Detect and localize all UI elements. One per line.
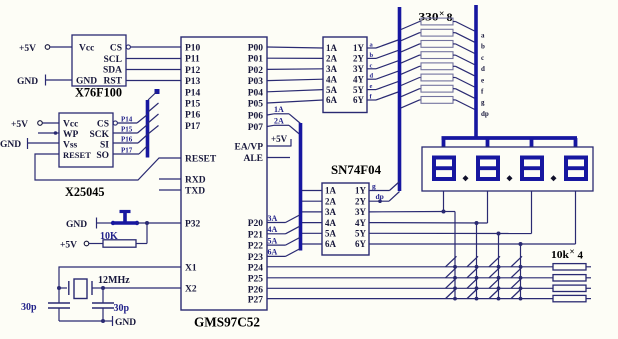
svg-text:d: d bbox=[370, 73, 374, 80]
resistor network RN1-3 (330) bbox=[401, 41, 475, 54]
wire X76F100 CS to P10 bbox=[131, 46, 182, 48]
ground GND at button bbox=[66, 218, 113, 231]
switch key R3C2 bbox=[467, 278, 478, 290]
svg-text:P16: P16 bbox=[185, 111, 201, 121]
svg-text:a: a bbox=[481, 32, 485, 40]
svg-text:2A: 2A bbox=[326, 54, 338, 64]
wire X25045 SI (net P16) bbox=[113, 135, 148, 144]
bus P14-P17 (thick) bbox=[146, 100, 150, 158]
svg-text:1A: 1A bbox=[274, 105, 284, 114]
wire P01 to U2 2A bbox=[267, 57, 323, 59]
chip X25045 bbox=[59, 113, 117, 199]
wire bus to P15 bbox=[148, 103, 159, 112]
wire P23 (net 6A) to bus bbox=[267, 248, 301, 257]
wire U2 4Y (segment d) to bus bbox=[367, 71, 400, 80]
wire bus to U3 2A bbox=[302, 200, 322, 202]
svg-text:8: 8 bbox=[447, 10, 453, 24]
wire P04 to U2 5A bbox=[267, 90, 323, 92]
svg-text:+5V: +5V bbox=[60, 241, 77, 251]
svg-text:5A: 5A bbox=[326, 85, 338, 95]
wire P21 (net 4A) to bus bbox=[267, 225, 301, 234]
power +5V to 10K bbox=[60, 241, 103, 251]
resistor network RN2-2 (10k) bbox=[553, 275, 591, 281]
MCU GMS97C52 bbox=[181, 37, 267, 331]
svg-text:RESET: RESET bbox=[63, 150, 91, 160]
svg-text:+5V: +5V bbox=[271, 134, 288, 144]
svg-text:Vcc: Vcc bbox=[79, 44, 94, 54]
svg-text:SCK: SCK bbox=[89, 130, 109, 140]
wire U3 3Y to digit1/column1 bbox=[369, 210, 455, 214]
resistor network RN2-4 (10k) bbox=[553, 295, 591, 301]
svg-text:d: d bbox=[481, 65, 485, 73]
crystal Y1 12MHz bbox=[57, 275, 130, 299]
svg-text:5Y: 5Y bbox=[355, 229, 367, 239]
wire U3 2Y (segment dp) to bus bbox=[369, 192, 400, 204]
svg-text:P17: P17 bbox=[185, 122, 201, 132]
svg-text:CS: CS bbox=[110, 44, 122, 54]
chip X76F100 bbox=[72, 35, 130, 100]
svg-text:5A: 5A bbox=[325, 229, 337, 239]
svg-text:X25045: X25045 bbox=[65, 184, 105, 199]
wire X76F100 SDA to P12 bbox=[126, 69, 181, 71]
switch key R4C3 bbox=[489, 288, 500, 300]
svg-text:GND: GND bbox=[17, 77, 38, 87]
svg-text:P04: P04 bbox=[248, 88, 264, 98]
switch key R4C2 bbox=[467, 288, 478, 300]
wire MCU TXD stub bbox=[159, 189, 181, 191]
switch key R2C2 bbox=[467, 267, 478, 279]
svg-text:P11: P11 bbox=[185, 55, 200, 65]
wire keypad column 4 bbox=[520, 244, 522, 299]
svg-text:GND: GND bbox=[0, 140, 21, 150]
resistor network RN1-1 (330) bbox=[401, 18, 475, 31]
svg-text:dp: dp bbox=[376, 192, 384, 201]
svg-text:P14: P14 bbox=[185, 88, 201, 98]
wire keypad row 3 (P26) bbox=[267, 287, 553, 289]
wire keypad row 1 (P24) bbox=[267, 266, 553, 268]
svg-text:P06: P06 bbox=[248, 112, 264, 122]
svg-text:2Y: 2Y bbox=[353, 54, 365, 64]
svg-text:SO: SO bbox=[96, 151, 109, 161]
svg-text:3Y: 3Y bbox=[353, 64, 365, 74]
power +5V to X25045 Vcc bbox=[11, 120, 59, 130]
wire keypad column 3 bbox=[498, 234, 500, 299]
svg-text:SDA: SDA bbox=[103, 66, 122, 76]
bus digit-drive (thick) bbox=[299, 123, 303, 251]
svg-text:6A: 6A bbox=[325, 239, 337, 249]
svg-text:ALE: ALE bbox=[243, 154, 263, 164]
wire U3 4Y to digit2/column2 bbox=[369, 221, 488, 225]
switch key R4C1 bbox=[446, 288, 457, 300]
capacitor C2 30p bbox=[92, 288, 130, 321]
svg-text:3A: 3A bbox=[326, 64, 338, 74]
wire U2 1Y (segment a) to bus bbox=[367, 40, 400, 49]
bus segment-right (thick) bbox=[474, 5, 478, 140]
wire P05 to U2 6A bbox=[267, 100, 323, 103]
svg-text:6A: 6A bbox=[326, 95, 338, 105]
svg-text:3A: 3A bbox=[268, 214, 278, 223]
wire X76F100 SCL to P11 bbox=[126, 58, 181, 60]
wire display segment bracket (thick) bbox=[442, 138, 578, 147]
switch key R4C4 bbox=[511, 288, 522, 300]
svg-text:3A: 3A bbox=[325, 207, 337, 217]
svg-text:30p: 30p bbox=[114, 303, 130, 314]
ground GND to X76F100 bbox=[17, 75, 72, 88]
wire ALE stub bbox=[267, 157, 290, 159]
switch key R2C3 bbox=[489, 267, 500, 279]
svg-text:1A: 1A bbox=[326, 43, 338, 53]
svg-text:P20: P20 bbox=[248, 219, 264, 229]
switch key R3C1 bbox=[446, 278, 457, 290]
svg-text:P12: P12 bbox=[185, 66, 201, 76]
svg-text:1Y: 1Y bbox=[353, 43, 365, 53]
svg-text:CS: CS bbox=[97, 120, 109, 130]
svg-text:P25: P25 bbox=[248, 275, 264, 285]
svg-text:EA/VP: EA/VP bbox=[235, 143, 264, 153]
wire bus to U3 3A bbox=[302, 211, 322, 213]
wire keypad row 4 (P27) bbox=[267, 298, 553, 300]
wire U3 6Y to digit4/column4 bbox=[369, 242, 576, 246]
wire U2 6Y (segment f) to bus bbox=[367, 92, 400, 101]
wire X25045 WP bbox=[38, 131, 59, 135]
svg-text:P23: P23 bbox=[248, 253, 264, 263]
svg-text:b: b bbox=[481, 43, 485, 51]
svg-text:X76F100: X76F100 bbox=[75, 86, 122, 100]
svg-text:f: f bbox=[481, 88, 484, 96]
svg-text:P24: P24 bbox=[248, 264, 264, 274]
svg-text:P15: P15 bbox=[121, 126, 133, 134]
svg-text:P14: P14 bbox=[121, 116, 133, 124]
resistor network RN2-3 (10k) bbox=[553, 285, 591, 291]
display DS1 4-digit 7-segment bbox=[422, 147, 593, 191]
svg-text:3Y: 3Y bbox=[355, 207, 367, 217]
svg-text:RESET: RESET bbox=[185, 155, 217, 165]
svg-text:1A: 1A bbox=[325, 186, 337, 196]
svg-text:2Y: 2Y bbox=[355, 196, 367, 206]
switch key R3C3 bbox=[489, 278, 500, 290]
wire bus to U3 5A bbox=[302, 232, 322, 234]
svg-text:+5V: +5V bbox=[11, 120, 28, 130]
svg-text:P07: P07 bbox=[248, 123, 264, 133]
svg-text:e: e bbox=[370, 83, 373, 90]
wire P07 (net 2A) to bus bbox=[267, 117, 301, 136]
wire bus to U3 4A bbox=[302, 222, 322, 224]
svg-text:P01: P01 bbox=[248, 55, 264, 65]
svg-text:P21: P21 bbox=[248, 230, 264, 240]
hex inverter U3 SN74F04 bbox=[322, 162, 381, 255]
svg-text:dp: dp bbox=[481, 110, 489, 118]
svg-text:Vcc: Vcc bbox=[63, 120, 78, 130]
svg-text:4: 4 bbox=[578, 250, 584, 262]
svg-text:P05: P05 bbox=[248, 100, 264, 110]
svg-text:c: c bbox=[370, 62, 373, 69]
svg-text:2A: 2A bbox=[274, 117, 284, 126]
power +5V to EA/VP bbox=[267, 134, 291, 147]
resistor 10K bbox=[100, 231, 147, 247]
wire crystal ground rail bbox=[59, 319, 112, 323]
wire U3 1Y (segment g) to bus bbox=[369, 182, 400, 191]
svg-text:TXD: TXD bbox=[185, 187, 205, 197]
resistor network RN1-2 (330) bbox=[401, 29, 475, 42]
svg-text:2A: 2A bbox=[325, 196, 337, 206]
switch key R2C4 bbox=[511, 267, 522, 279]
wire bus to U3 1A bbox=[302, 190, 322, 192]
wire keypad column 1 bbox=[454, 212, 456, 299]
svg-text:6A: 6A bbox=[268, 248, 278, 257]
resistor network RN1-6 (330) bbox=[401, 74, 475, 87]
svg-text:5Y: 5Y bbox=[353, 85, 365, 95]
svg-text:×: × bbox=[570, 247, 575, 257]
wire X2 bbox=[103, 287, 181, 289]
switch key R1C4 bbox=[511, 256, 522, 268]
svg-text:Vss: Vss bbox=[63, 141, 78, 151]
wire P03 to U2 4A bbox=[267, 79, 323, 80]
switch key R1C3 bbox=[489, 256, 500, 268]
wire keypad column 2 bbox=[476, 223, 478, 299]
svg-text:P10: P10 bbox=[185, 44, 201, 54]
wire X25045 SCK (net P15) bbox=[113, 125, 148, 134]
svg-text:P03: P03 bbox=[248, 77, 264, 87]
switch key R1C2 bbox=[467, 256, 478, 268]
power +5V to X76F100 Vcc bbox=[19, 44, 72, 54]
wire P00 to U2 1A bbox=[267, 47, 323, 48]
svg-text:X2: X2 bbox=[185, 285, 197, 295]
wire X25045 RESET to MCU RESET bbox=[35, 154, 181, 180]
resistor network RN1-4 (330) bbox=[401, 52, 475, 65]
wire display digit2 cathode bbox=[487, 191, 489, 223]
svg-text:P16: P16 bbox=[121, 136, 133, 144]
ground GND to X25045 Vss bbox=[0, 138, 59, 150]
resistor network RN1-7 (330) bbox=[401, 85, 475, 98]
wire X25045 CS (net P14) bbox=[118, 115, 148, 124]
ground GND at crystal bbox=[113, 316, 137, 328]
svg-text:SN74F04: SN74F04 bbox=[331, 162, 381, 177]
svg-text:g: g bbox=[481, 99, 485, 107]
svg-text:5A: 5A bbox=[268, 236, 278, 245]
wire P20 (net 3A) to bus bbox=[267, 214, 301, 223]
svg-text:b: b bbox=[370, 52, 374, 59]
wire junction down to resistor bbox=[146, 223, 148, 244]
capacitor C1 30p bbox=[21, 302, 70, 321]
svg-text:g: g bbox=[372, 182, 376, 191]
wire display digit1 cathode bbox=[443, 191, 445, 212]
hex inverter U2 SN74F04 (a-f) bbox=[323, 37, 367, 113]
svg-text:P26: P26 bbox=[248, 285, 264, 295]
wire display digit4 cathode bbox=[575, 191, 577, 244]
svg-text:WP: WP bbox=[63, 130, 79, 140]
resistor network RN2-1 (10k) bbox=[553, 264, 591, 270]
wire button to P32 bbox=[137, 221, 181, 225]
svg-text:P32: P32 bbox=[185, 220, 201, 230]
node P14 junction bbox=[148, 89, 160, 100]
wire U2 3Y (segment c) to bus bbox=[367, 60, 400, 69]
wire bus to P17 bbox=[148, 126, 159, 135]
wire X25045 SO (net P17) bbox=[113, 146, 148, 155]
svg-text:c: c bbox=[481, 54, 484, 62]
wire P02 to U2 3A bbox=[267, 68, 323, 71]
svg-text:SCL: SCL bbox=[104, 55, 122, 65]
svg-text:P17: P17 bbox=[121, 147, 133, 155]
wire U3 5Y to digit3/column3 bbox=[369, 232, 532, 236]
svg-text:4A: 4A bbox=[325, 218, 337, 228]
svg-text:GND: GND bbox=[66, 220, 87, 230]
svg-text:12MHz: 12MHz bbox=[98, 275, 130, 286]
resistor network RN1-5 (330) bbox=[401, 63, 475, 76]
svg-text:6Y: 6Y bbox=[353, 95, 365, 105]
svg-text:GND: GND bbox=[115, 318, 136, 328]
switch key R1C1 bbox=[446, 256, 457, 268]
svg-text:4Y: 4Y bbox=[355, 218, 367, 228]
svg-text:P13: P13 bbox=[185, 77, 201, 87]
wire X76F100 RST to P13 bbox=[126, 80, 181, 82]
svg-text:P27: P27 bbox=[248, 296, 264, 306]
svg-text:6Y: 6Y bbox=[355, 239, 367, 249]
svg-text:X1: X1 bbox=[185, 264, 197, 274]
wire display digit3 cathode bbox=[531, 191, 533, 234]
resistor network RN1-8 (330) bbox=[401, 97, 475, 110]
svg-text:GMS97C52: GMS97C52 bbox=[194, 316, 260, 331]
wire U2 2Y (segment b) to bus bbox=[367, 50, 400, 59]
svg-text:P02: P02 bbox=[248, 66, 264, 76]
svg-text:30p: 30p bbox=[21, 302, 37, 313]
svg-text:RXD: RXD bbox=[185, 176, 206, 186]
wire MCU RXD stub bbox=[159, 178, 181, 180]
svg-text:10k: 10k bbox=[551, 249, 570, 261]
wire P06 (net 1A) to bus bbox=[267, 105, 301, 124]
svg-text:P00: P00 bbox=[248, 44, 264, 54]
svg-text:e: e bbox=[481, 76, 484, 84]
svg-text:P22: P22 bbox=[248, 242, 264, 252]
wire bus to U3 6A bbox=[302, 243, 322, 245]
wire X1 bbox=[59, 267, 181, 303]
wire keypad row 2 (P25) bbox=[267, 277, 553, 279]
switch key R2C1 bbox=[446, 267, 457, 279]
wire P22 (net 5A) to bus bbox=[267, 236, 301, 245]
svg-text:1Y: 1Y bbox=[355, 186, 367, 196]
svg-text:SI: SI bbox=[100, 141, 109, 151]
bus segment-left (thick) bbox=[398, 7, 402, 191]
wire bus to P16 bbox=[148, 114, 159, 123]
svg-text:4A: 4A bbox=[326, 74, 338, 84]
switch key R3C4 bbox=[511, 278, 522, 290]
pushbutton S1 bbox=[111, 212, 139, 226]
svg-text:4A: 4A bbox=[268, 225, 278, 234]
svg-text:4Y: 4Y bbox=[353, 74, 365, 84]
svg-text:+5V: +5V bbox=[19, 44, 36, 54]
wire U2 5Y (segment e) to bus bbox=[367, 81, 400, 90]
svg-text:P15: P15 bbox=[185, 100, 201, 110]
